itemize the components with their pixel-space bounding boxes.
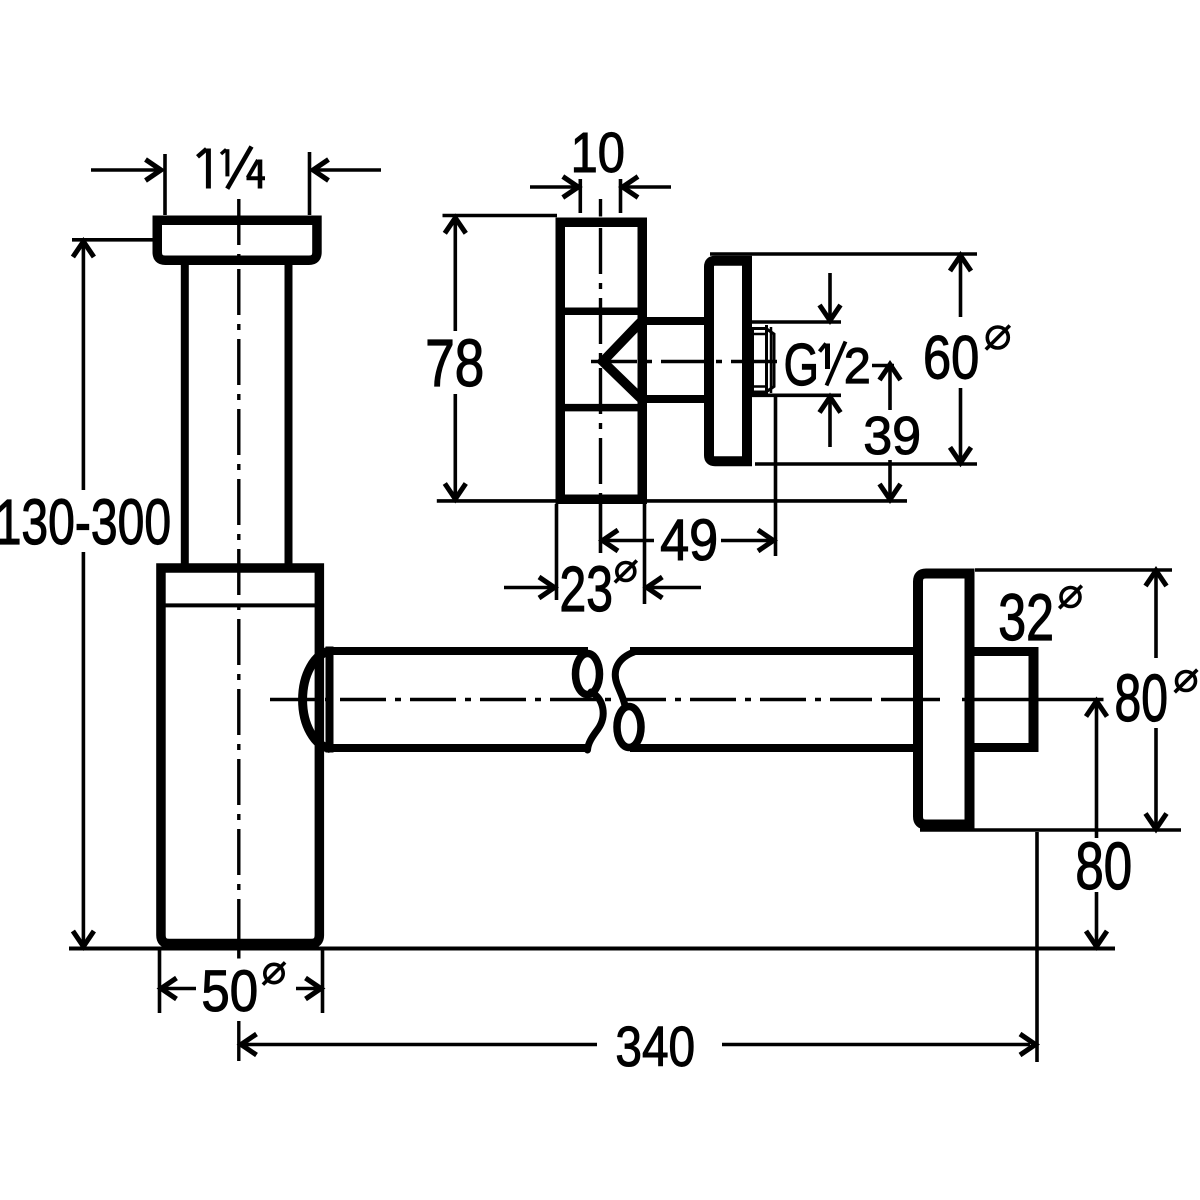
svg-text:130-300: 130-300: [0, 486, 171, 557]
svg-text:G: G: [784, 332, 819, 398]
svg-text:340: 340: [615, 1016, 695, 1079]
svg-text:80: 80: [1115, 661, 1168, 736]
svg-text:50: 50: [201, 959, 258, 1024]
svg-text:78: 78: [425, 325, 484, 400]
svg-text:32: 32: [998, 582, 1054, 655]
svg-text:10: 10: [571, 122, 625, 185]
svg-text:60: 60: [923, 323, 979, 392]
svg-text:49: 49: [660, 507, 718, 572]
svg-text:23: 23: [560, 553, 613, 624]
svg-text:2: 2: [844, 338, 871, 394]
svg-text:80: 80: [1075, 828, 1132, 903]
svg-text:39: 39: [863, 406, 921, 466]
